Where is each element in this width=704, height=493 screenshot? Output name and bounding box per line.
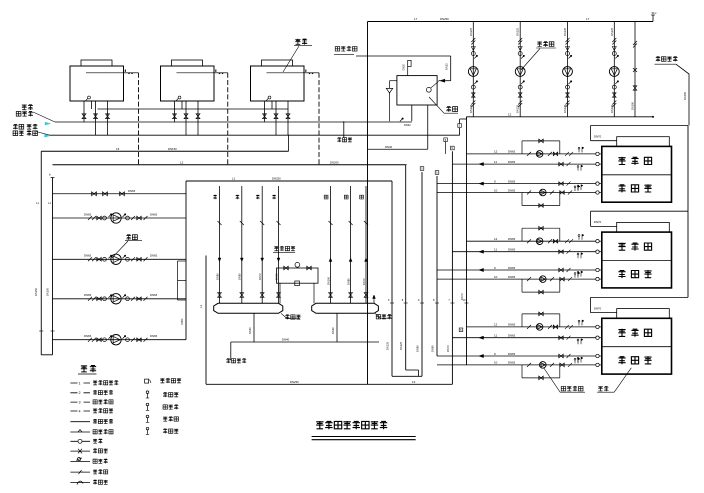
- svg-text:DN65: DN65: [84, 254, 92, 258]
- branch pump with bypass below: [521, 279, 523, 292]
- svg-text:DN65: DN65: [508, 237, 516, 241]
- branch wire: [53, 298, 187, 300]
- strainer + butterfly valves: [88, 216, 96, 220]
- return manifold vessel (jishuiqi): [312, 303, 379, 313]
- left riser B: [52, 178, 54, 355]
- make-up water label: [335, 46, 357, 51]
- AHU box text row 1: [618, 243, 625, 251]
- svg-text:DN65: DN65: [508, 323, 516, 327]
- chiller unit box 1: [70, 66, 124, 101]
- label: chiller unit callout: [295, 39, 307, 45]
- AHU box text row 2: [618, 270, 625, 278]
- svg-text:DN80: DN80: [431, 345, 435, 352]
- flange: [596, 250, 599, 253]
- vessel drains: [253, 313, 255, 342]
- svg-text:DN65: DN65: [508, 188, 516, 192]
- manifold riser x186: [185, 181, 187, 340]
- chilled water bus wire y109: [98, 108, 289, 110]
- svg-text:DN200: DN200: [330, 160, 339, 164]
- svg-text:L7: L7: [414, 17, 418, 21]
- pressure bypass assembly label: [274, 246, 295, 251]
- chiller 1 internal line: [86, 72, 124, 74]
- chiller 3 legs and valves: [264, 101, 266, 122]
- tank legs: [411, 105, 413, 121]
- AHU bracket outline: [591, 296, 689, 298]
- svg-text:12: 12: [494, 237, 498, 241]
- strainer + butterfly valves: [88, 297, 96, 301]
- legend row 1: [70, 382, 90, 384]
- AHU branch line 10: [437, 364, 596, 366]
- chiller 2 top cap: [172, 60, 203, 66]
- legend right row 4: [147, 417, 149, 422]
- svg-text:DN250: DN250: [272, 177, 281, 181]
- AHU cap: [617, 137, 670, 147]
- svg-text:DN32: DN32: [404, 123, 411, 127]
- svg-text:DN80: DN80: [238, 273, 242, 280]
- cyan flow arrow 2: [45, 134, 51, 137]
- legend right row 2: [147, 393, 149, 398]
- tank outlet wire y149: [368, 148, 428, 150]
- chiller 1 condenser riser wire: [124, 72, 139, 74]
- drain down corner + label: [230, 342, 232, 360]
- svg-text:DN65: DN65: [128, 189, 136, 193]
- AHU branch line 11: [452, 163, 596, 165]
- riser bottom U bends: [392, 375, 422, 377]
- svg-text:DN125: DN125: [563, 27, 567, 36]
- cooling pump label callout: [537, 42, 554, 47]
- svg-text:DN125: DN125: [386, 341, 390, 350]
- drain bus wire y122: [55, 121, 412, 123]
- legend row 2: [70, 392, 90, 394]
- AHU bracket outline: [591, 210, 689, 212]
- AHU labels callouts: [561, 386, 583, 391]
- drawing title: [316, 421, 323, 429]
- legend row 11: [70, 481, 90, 483]
- AHU cap: [617, 309, 670, 319]
- svg-text:DN65: DN65: [508, 179, 516, 183]
- AHU box: [602, 318, 672, 374]
- cooling pump: [609, 67, 619, 77]
- svg-text:DN40: DN40: [248, 327, 252, 334]
- AHU branch line 12: [467, 326, 597, 328]
- riser R2 x407: [405, 165, 407, 370]
- svg-text:DN65: DN65: [84, 293, 92, 297]
- svg-text:DN65: DN65: [508, 334, 516, 338]
- chiller 3 internal line: [267, 72, 305, 74]
- bypass loop box: [277, 268, 319, 283]
- flange: [596, 240, 599, 243]
- branch wire: [53, 217, 187, 219]
- discharge valves: [126, 216, 130, 220]
- svg-text:2: 2: [79, 391, 81, 395]
- svg-text:DN80: DN80: [416, 345, 420, 352]
- AHU box text row 2: [618, 356, 625, 364]
- title underline double: [312, 436, 416, 438]
- chiller 3 condenser riser wire: [304, 72, 319, 74]
- manifold rungs: [178, 260, 187, 262]
- flange: [596, 182, 599, 185]
- manifold riser x206 (L1): [205, 256, 207, 385]
- svg-text:DN80: DN80: [215, 273, 219, 280]
- legend title: [81, 365, 87, 372]
- svg-text:DN20: DN20: [402, 63, 405, 70]
- svg-text:DN250: DN250: [290, 380, 299, 384]
- svg-text:DN70: DN70: [362, 278, 366, 285]
- legend row 3: [70, 401, 90, 403]
- left risers bottom U-bend: [41, 354, 52, 356]
- riser R1 x392: [391, 181, 393, 376]
- chiller 1 top cap: [81, 60, 112, 66]
- AHU branch line 10: [437, 192, 596, 194]
- svg-text:DN65: DN65: [508, 275, 516, 279]
- group2-group3 right drop wire: [687, 211, 689, 297]
- strainer + butterfly valves: [88, 257, 96, 261]
- tank overflow funnel: [390, 80, 397, 82]
- svg-text:DN65: DN65: [84, 334, 92, 338]
- svg-text:DN125: DN125: [469, 104, 473, 113]
- pipe tag group1 line12: [444, 138, 448, 142]
- branch pump with bypass below: [521, 365, 523, 378]
- cyan flow arrow 1: [45, 122, 51, 125]
- main return header L2: [53, 164, 406, 166]
- AHU cap: [617, 222, 670, 232]
- AHU branch line 9: [437, 183, 596, 185]
- discharge valves: [126, 257, 130, 261]
- svg-text:13: 13: [412, 380, 416, 384]
- svg-text:10: 10: [494, 361, 498, 365]
- svg-text:L2: L2: [180, 160, 184, 164]
- cooling pump: [563, 67, 573, 77]
- chiller unit box 2: [161, 66, 215, 101]
- svg-text:11: 11: [494, 334, 497, 338]
- svg-text:DN125: DN125: [610, 104, 614, 113]
- AHU branch line 11: [452, 337, 596, 339]
- riser R5 x452: [451, 151, 453, 384]
- svg-text:DN150: DN150: [168, 147, 177, 151]
- strainer + butterfly valves: [88, 338, 96, 342]
- svg-text:DN65: DN65: [150, 334, 158, 338]
- svg-text:DN65: DN65: [508, 160, 516, 164]
- svg-text:DN65: DN65: [150, 254, 158, 258]
- svg-text:DN125: DN125: [610, 27, 614, 36]
- svg-text:11: 11: [494, 248, 497, 252]
- svg-text:DN50: DN50: [181, 318, 184, 325]
- pump: [111, 335, 121, 345]
- to cooling tower label: [656, 57, 678, 62]
- svg-text:DN65: DN65: [508, 150, 516, 154]
- flange: [596, 191, 599, 194]
- AHU box text row 2: [618, 184, 625, 192]
- wire: vertical connecting y134.75 end: [288, 135, 290, 152]
- cooling pump branch: [519, 22, 521, 117]
- cooling pump: [515, 67, 525, 77]
- svg-text:L5: L5: [116, 147, 120, 151]
- AHU branch line 11: [452, 251, 596, 253]
- legend right row 3: [147, 405, 149, 410]
- AHU box text row 1: [618, 329, 625, 337]
- svg-text:DN125: DN125: [516, 104, 520, 113]
- chiller 3 top cap: [262, 60, 293, 66]
- riser R3 x422: [421, 172, 423, 376]
- legend row 7: [70, 440, 90, 442]
- svg-text:1: 1: [79, 381, 81, 385]
- flange: [596, 325, 599, 328]
- svg-text:12: 12: [494, 150, 498, 154]
- svg-text:L7: L7: [586, 17, 590, 21]
- svg-text:DN125: DN125: [469, 27, 473, 36]
- flange: [596, 268, 599, 271]
- flange: [596, 277, 599, 280]
- supply header wire y181: [186, 180, 392, 182]
- left riser A: [40, 151, 42, 355]
- tank float valve circle: [426, 87, 431, 92]
- svg-text:DN65: DN65: [508, 352, 516, 356]
- svg-text:DN250: DN250: [440, 17, 449, 21]
- branch pump with bypass above: [521, 314, 523, 327]
- expansion tank box: [397, 76, 437, 105]
- make-up water wire: [356, 55, 451, 57]
- svg-text:DN70: DN70: [594, 306, 602, 310]
- svg-text:DN150: DN150: [34, 287, 38, 296]
- label leader: condenser water pair: [13, 124, 24, 129]
- svg-text:12: 12: [508, 112, 512, 116]
- svg-text:10: 10: [494, 188, 498, 192]
- discharge valves: [126, 297, 130, 301]
- legend row 4: [70, 410, 90, 412]
- svg-text:10: 10: [494, 275, 498, 279]
- tank drain wire to floor drain: [343, 121, 345, 137]
- svg-text:DN65: DN65: [150, 293, 158, 297]
- pump label callout: [126, 235, 137, 240]
- chiller 3 sensor circle: [268, 96, 271, 99]
- pipe tag group3 line12: [459, 328, 463, 332]
- cooling pump branch: [613, 22, 615, 117]
- AHU box: [602, 146, 672, 202]
- flange: [596, 363, 599, 366]
- pump: [111, 294, 121, 304]
- vessel1 label callout: [281, 313, 287, 318]
- svg-text:DN100: DN100: [631, 101, 635, 110]
- svg-text:DN125: DN125: [516, 27, 520, 36]
- header end connector: [652, 15, 654, 22]
- AHU branch line 12: [467, 153, 597, 155]
- chiller unit box 3: [251, 66, 305, 101]
- legend row 8: [70, 450, 90, 452]
- discharge valves: [126, 338, 130, 342]
- svg-text:DN65: DN65: [508, 361, 516, 365]
- tank label callout: [429, 97, 444, 113]
- svg-text:DN65: DN65: [508, 248, 516, 252]
- AHU box text row 1: [618, 157, 625, 165]
- svg-text:DN100: DN100: [326, 276, 330, 285]
- flange: [596, 354, 599, 357]
- svg-text:DN40: DN40: [282, 338, 290, 342]
- svg-text:DN40: DN40: [331, 327, 335, 334]
- AHU branch line 9: [437, 269, 596, 271]
- branch wire: [53, 258, 187, 260]
- svg-text:DN150: DN150: [683, 91, 687, 100]
- pressure gauge: [295, 262, 300, 267]
- bypass branch line (no pump): [53, 193, 187, 195]
- AHU branch line 10: [437, 278, 596, 280]
- to cooling tower wire: [676, 64, 689, 125]
- svg-text:DN70: DN70: [594, 220, 602, 224]
- group1-group2 right drop wire: [687, 126, 689, 212]
- main riser wire x367.5: [367, 22, 369, 385]
- chiller 2 legs and valves: [174, 101, 176, 122]
- AHU branch line 12: [467, 240, 597, 242]
- vessel2 label callout: [375, 313, 380, 318]
- bypass drops into vessels: [279, 283, 281, 303]
- cooling pump branch: [567, 22, 569, 117]
- branch wire: [53, 339, 187, 341]
- svg-text:DN125: DN125: [563, 104, 567, 113]
- riser labels: [390, 302, 394, 304]
- flange: [596, 152, 599, 155]
- legend right row 5: [147, 429, 149, 434]
- AHU box: [602, 232, 672, 288]
- chiller 2 condenser riser wire: [214, 72, 228, 74]
- label leader: supply to chillers (top pair): [22, 105, 27, 111]
- svg-text:3: 3: [79, 401, 81, 405]
- bypass control valve body: [295, 281, 300, 286]
- vessel2 vent arrow: [373, 297, 375, 304]
- legend row 9: [70, 460, 90, 462]
- svg-text:DN80: DN80: [346, 278, 350, 285]
- svg-text:11: 11: [494, 160, 497, 164]
- svg-text:L1: L1: [199, 304, 203, 308]
- svg-text:DN40: DN40: [385, 145, 393, 149]
- pump: [111, 254, 121, 264]
- svg-text:DN65: DN65: [150, 212, 158, 216]
- legend row 5: [70, 421, 90, 423]
- vessel1 inlet pipes: [219, 186, 221, 303]
- svg-text:DN65: DN65: [84, 212, 92, 216]
- jog from condenser bus up to pump suction header: [459, 128, 461, 135]
- svg-text:DN150: DN150: [46, 287, 50, 296]
- AHU bracket outline: [591, 125, 689, 127]
- cooling bypass branch: [634, 22, 636, 117]
- svg-text:12: 12: [494, 323, 498, 327]
- flange: [596, 336, 599, 339]
- svg-text:L1: L1: [232, 177, 236, 181]
- supply manifold vessel (fenshuiqi): [214, 303, 283, 313]
- svg-text:DN25: DN25: [445, 63, 449, 70]
- cooling pump branch: [472, 22, 474, 117]
- legend right row 1: [145, 379, 149, 383]
- legend row 6: [70, 431, 90, 433]
- branch pump with bypass above: [521, 141, 523, 154]
- corner riser from bus y134.75: [55, 134, 289, 136]
- flange: [596, 162, 599, 165]
- svg-text:DN70: DN70: [446, 345, 450, 352]
- pump: [111, 213, 121, 223]
- cooling tower supply header: [368, 21, 654, 23]
- condenser bus wire y135: [50, 134, 460, 136]
- cooling pump suction header: [467, 116, 654, 118]
- svg-text:DN65: DN65: [508, 266, 516, 270]
- chiller 1 legs and valves: [83, 101, 85, 122]
- chiller 2 sensor circle: [178, 96, 181, 99]
- chiller 1 sensor circle: [88, 96, 91, 99]
- svg-text:DN125: DN125: [399, 341, 403, 350]
- riser R4 x437: [436, 176, 438, 356]
- tank safety stub: [407, 67, 409, 76]
- drain header wire y342: [231, 341, 379, 343]
- cooling pump: [468, 67, 478, 77]
- bottom header wire y384: [206, 383, 452, 385]
- vessel2 inlet pipes: [330, 186, 332, 303]
- legend row 10: [70, 471, 90, 473]
- chiller 2 internal line: [177, 72, 215, 74]
- svg-text:4: 4: [79, 409, 81, 413]
- branch pump with bypass above: [521, 228, 523, 241]
- AHU branch line 9: [437, 355, 596, 357]
- svg-text:DN70: DN70: [258, 273, 262, 280]
- branch pump with bypass below: [521, 193, 523, 206]
- riser top corner from L2: [451, 383, 453, 385]
- riser R6 x466.5: [466, 117, 468, 365]
- svg-text:DN70: DN70: [594, 135, 602, 139]
- pipe L5 horizontal: [41, 150, 288, 152]
